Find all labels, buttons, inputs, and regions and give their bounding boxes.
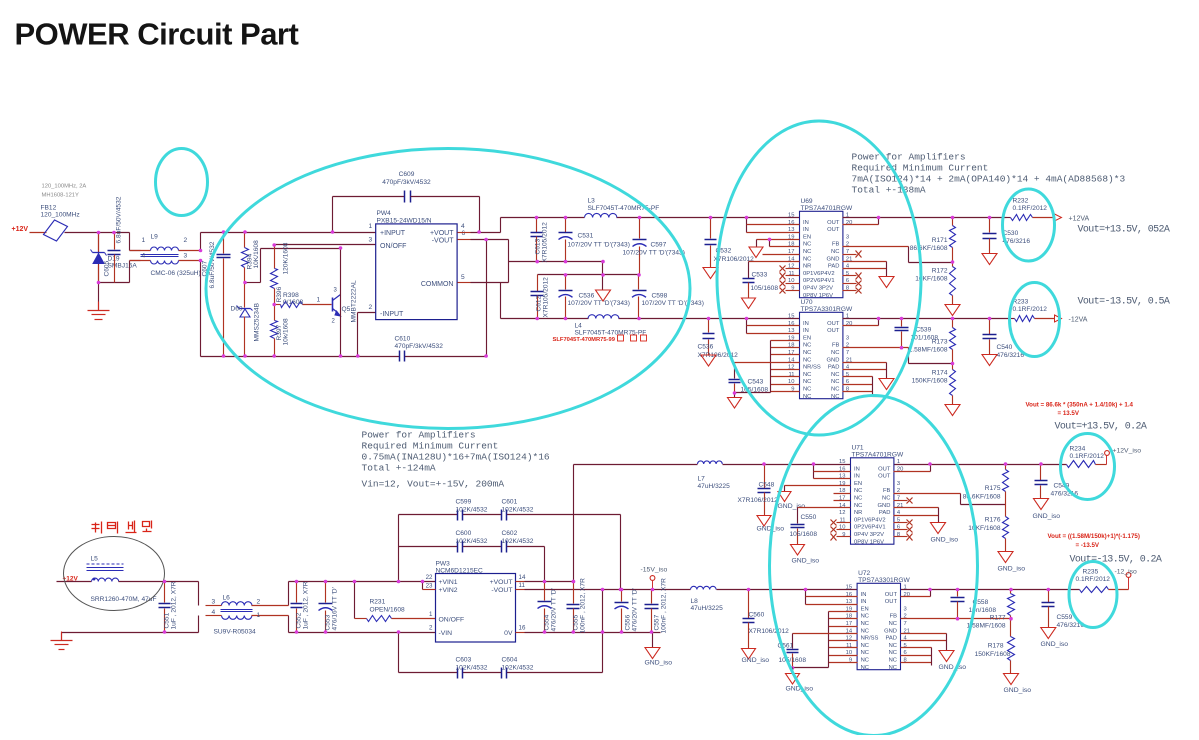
wire U71 IN stubs	[812, 462, 851, 478]
junction dot 273.7,355.5	[272, 354, 276, 358]
svg-text:Vout = ((1.58M/150k)+1)*(-1.17: Vout = ((1.58M/150k)+1)*(-1.175)	[1048, 533, 1140, 540]
wire U69 pad gnd	[843, 251, 887, 277]
svg-text:NC: NC	[831, 387, 839, 393]
ground bottom input	[51, 632, 199, 650]
junction dot 746,217	[745, 216, 749, 220]
junction dot 602,631.5	[601, 630, 605, 634]
capacitor C557	[645, 578, 668, 634]
svg-text:Vout=+13.5V, 0.2A: Vout=+13.5V, 0.2A	[1055, 422, 1147, 433]
svg-text:476/3216: 476/3216	[997, 352, 1025, 359]
highlight ellipse R235	[1069, 562, 1117, 628]
inductor L7	[698, 461, 731, 490]
svg-text:GND_iso: GND_iso	[1004, 687, 1032, 694]
svg-text:= 13.5V: = 13.5V	[1058, 410, 1080, 417]
svg-text:NC: NC	[889, 650, 897, 656]
svg-text:NC: NC	[861, 650, 869, 656]
junction dot 639,217	[638, 216, 642, 220]
svg-text:TPS7A4701RGW: TPS7A4701RGW	[801, 205, 853, 212]
svg-text:-12_iso: -12_iso	[1115, 569, 1138, 576]
svg-text:NC: NC	[803, 350, 811, 356]
svg-text:C559: C559	[1057, 614, 1073, 621]
svg-text:3: 3	[904, 606, 907, 612]
svg-text:105/1608: 105/1608	[779, 657, 807, 664]
svg-text:GND: GND	[884, 628, 897, 634]
dc-dc module PW4	[369, 210, 466, 320]
svg-text:3: 3	[846, 234, 849, 240]
wire U72 pad gnd	[901, 634, 947, 651]
wire -VOUT iso	[516, 589, 691, 591]
wire L6 jogs	[199, 582, 289, 633]
svg-text:NC: NC	[831, 249, 839, 255]
wire U70 EN NC bus	[771, 341, 800, 393]
capacitor C536 low	[698, 319, 739, 360]
wire R398 to Q5 base	[303, 297, 332, 305]
svg-text:R177: R177	[990, 615, 1006, 622]
svg-text:NC: NC	[889, 665, 897, 671]
svg-text:0.1RF/2012: 0.1RF/2012	[1013, 306, 1048, 313]
svg-text:+12VA: +12VA	[1069, 216, 1090, 223]
junction dot 98,232	[97, 231, 101, 235]
svg-text:NC: NC	[803, 372, 811, 378]
ground R176	[998, 552, 1026, 573]
svg-text:IN: IN	[861, 599, 867, 605]
capacitor C609	[333, 171, 480, 233]
svg-text:NR/SS: NR/SS	[803, 365, 821, 371]
svg-text:-INPUT: -INPUT	[380, 311, 404, 318]
wire U72 EN NC bus	[793, 612, 858, 668]
svg-text:IN: IN	[861, 592, 867, 598]
svg-text:EN: EN	[803, 335, 811, 341]
svg-text:0.75mA(INA128U)*16+7mA(ISO124): 0.75mA(INA128U)*16+7mA(ISO124)*16	[362, 452, 550, 463]
wire U72 NRSS to C561	[793, 634, 858, 649]
svg-text:OUT: OUT	[878, 466, 891, 472]
svg-text:105/1608: 105/1608	[751, 285, 779, 292]
ellipse L5 change	[64, 537, 165, 611]
svg-text:10k/1608: 10k/1608	[283, 318, 290, 345]
svg-text:+VIN2: +VIN2	[439, 587, 458, 594]
svg-text:6: 6	[462, 230, 466, 237]
svg-text:22: 22	[426, 574, 433, 581]
wire U70 NRSS to C543	[735, 363, 800, 379]
junction dot 398,631.5	[397, 630, 401, 634]
svg-text:X7R106/2012: X7R106/2012	[749, 628, 790, 635]
svg-text:Power for Amplifiers: Power for Amplifiers	[362, 430, 476, 441]
wire +INPUT rail	[201, 232, 376, 234]
wire +VOUT net	[458, 218, 501, 233]
svg-text:NR: NR	[854, 510, 862, 516]
resistor R172	[915, 263, 955, 305]
junction dot 223,231.5	[222, 230, 226, 234]
svg-text:0.1RF/2012: 0.1RF/2012	[1013, 205, 1048, 212]
svg-text:GND_iso: GND_iso	[998, 566, 1026, 573]
svg-text:C598: C598	[652, 293, 668, 300]
svg-text:107/20V TT 'D'(7343): 107/20V TT 'D'(7343)	[568, 242, 630, 249]
junction dot 113.5,232	[112, 231, 116, 235]
highlight ellipse small top-left	[156, 149, 208, 216]
junction dot 340,247.5	[339, 246, 343, 250]
svg-text:L6: L6	[223, 595, 231, 602]
svg-text:Vout=-13.5V, 0.5A: Vout=-13.5V, 0.5A	[1078, 297, 1170, 308]
wire C599 row	[399, 515, 621, 590]
svg-text:3: 3	[212, 599, 216, 606]
junction dot 638.5,318	[637, 317, 641, 321]
svg-text:PAD: PAD	[886, 636, 898, 642]
junction dot 164,631.5	[163, 630, 167, 634]
svg-text:R174: R174	[932, 370, 948, 377]
svg-text:C543: C543	[748, 379, 764, 386]
ground C549	[1033, 499, 1061, 521]
resistor R398	[275, 292, 304, 308]
svg-text:-12VA: -12VA	[1069, 317, 1088, 324]
svg-text:-15V_iso: -15V_iso	[641, 567, 668, 574]
note Vout neg	[1078, 297, 1170, 308]
svg-text:FB: FB	[890, 614, 898, 620]
capacitor C551	[159, 581, 178, 632]
svg-text:100nF , 2012, X7R: 100nF , 2012, X7R	[661, 578, 668, 634]
svg-text:R171: R171	[932, 237, 948, 244]
svg-text:10KF/1608: 10KF/1608	[968, 525, 1001, 532]
svg-text:1: 1	[369, 223, 373, 230]
svg-text:R235: R235	[1083, 569, 1099, 576]
svg-text:C550: C550	[801, 514, 817, 521]
svg-text:Required Minimum Current: Required Minimum Current	[852, 163, 989, 174]
wire C610 to -VOUT	[486, 240, 488, 357]
capacitor C539	[895, 317, 939, 348]
svg-text:C603: C603	[456, 657, 472, 664]
regulator U71	[839, 444, 904, 545]
junction dot 357.3,355.5	[356, 354, 360, 358]
wire VIN2 jog	[423, 582, 436, 590]
wire lower -13.5V rail	[501, 318, 800, 320]
wire L9 pin3 out	[200, 261, 202, 357]
svg-text:OUT: OUT	[827, 220, 840, 226]
junction dot 98,282	[97, 281, 101, 285]
note Vout formula2 red	[1048, 533, 1140, 549]
svg-text:IN: IN	[803, 220, 809, 226]
svg-text:+12V_iso: +12V_iso	[1113, 448, 1142, 455]
svg-text:476/16V TT 'D': 476/16V TT 'D'	[332, 587, 339, 630]
svg-text:OUT: OUT	[885, 592, 898, 598]
svg-text:R172: R172	[932, 268, 948, 275]
capacitor C536 mid	[559, 275, 630, 319]
resistor R173	[909, 319, 956, 364]
svg-text:105/1608: 105/1608	[790, 531, 818, 538]
svg-text:L5: L5	[91, 556, 99, 563]
svg-text:C597: C597	[651, 242, 667, 249]
capacitor C532	[705, 218, 755, 268]
junction dot 638.5,274.4	[637, 273, 641, 277]
junction dot 573,581	[572, 580, 576, 584]
wire mid bus2	[538, 262, 639, 275]
svg-text:OUT: OUT	[827, 328, 840, 334]
junction dot 652,589	[651, 588, 655, 592]
resistor R175	[963, 462, 1009, 504]
svg-text:SMBJ15A: SMBJ15A	[108, 263, 138, 270]
svg-text:107/20V TT 'D'(7343): 107/20V TT 'D'(7343)	[642, 300, 704, 307]
port +12VA	[1055, 214, 1090, 223]
svg-text:PAD: PAD	[828, 264, 840, 270]
svg-text:TPS7A3301RGW: TPS7A3301RGW	[801, 306, 853, 313]
svg-text:D60: D60	[231, 306, 243, 313]
ground U71 pad	[931, 523, 959, 544]
svg-text:GND_iso: GND_iso	[792, 558, 820, 565]
capacitor C600	[456, 530, 488, 553]
svg-text:7: 7	[846, 350, 849, 356]
junction dot 164,581	[163, 580, 167, 584]
svg-text:L8: L8	[691, 598, 699, 605]
capacitor C561	[778, 643, 807, 670]
wire R394 jog	[245, 249, 341, 283]
svg-text:NC: NC	[831, 350, 839, 356]
svg-text:17: 17	[788, 350, 794, 356]
svg-text:NC: NC	[803, 256, 811, 262]
svg-text:OPEN/1608: OPEN/1608	[370, 607, 406, 614]
svg-text:15: 15	[846, 585, 852, 591]
svg-text:POWER Circuit Part: POWER Circuit Part	[15, 17, 299, 52]
svg-text:GND_iso: GND_iso	[931, 537, 959, 544]
wire U72 nc right	[901, 648, 932, 666]
svg-text:OUT: OUT	[878, 474, 891, 480]
junction dot 620,589	[619, 588, 623, 592]
wire -INPUT jog	[358, 313, 376, 357]
resistor R174	[912, 364, 956, 405]
svg-text:MMBT2222AL: MMBT2222AL	[351, 280, 358, 322]
note FB12 part info	[42, 184, 87, 199]
port -12_iso	[1109, 569, 1138, 590]
resistor R178	[975, 617, 1015, 674]
wire U69 NC stubs	[763, 254, 800, 256]
svg-text:Vout = 86.6k * (350nA + 1.4/10: Vout = 86.6k * (350nA + 1.4/10k) + 1.4	[1026, 402, 1134, 409]
svg-text:GND: GND	[878, 503, 891, 509]
svg-text:C556: C556	[625, 614, 632, 630]
svg-text:NR: NR	[803, 264, 811, 270]
choke L6	[206, 595, 289, 636]
capacitor C556	[615, 588, 639, 632]
ground U70 pad	[879, 379, 894, 390]
svg-text:+VOUT: +VOUT	[430, 230, 454, 237]
svg-text:IN: IN	[803, 227, 809, 233]
junction dot 244.5,231.5	[243, 230, 247, 234]
capacitor C555	[567, 578, 587, 634]
svg-text:ON/OFF: ON/OFF	[380, 243, 406, 250]
svg-text:C599: C599	[456, 499, 472, 506]
junction dot 536.7,261.1	[535, 260, 539, 264]
svg-text:GND_iso: GND_iso	[645, 660, 673, 667]
svg-text:0P1V6P4V2: 0P1V6P4V2	[854, 517, 886, 523]
ground C550	[791, 545, 820, 565]
junction dot 536.7,318	[535, 317, 539, 321]
junction dot 354,581	[353, 580, 357, 584]
svg-text:15: 15	[788, 213, 794, 219]
svg-text:+INPUT: +INPUT	[380, 230, 406, 237]
capacitor C597	[623, 218, 685, 275]
svg-text:4: 4	[142, 253, 146, 260]
node +12V bottom	[63, 576, 79, 583]
svg-text:10K/1608: 10K/1608	[253, 240, 260, 269]
svg-text:NC: NC	[861, 621, 869, 627]
svg-text:NC: NC	[831, 394, 839, 400]
svg-text:470pF/3kV/4532: 470pF/3kV/4532	[395, 343, 444, 350]
svg-text:L7: L7	[698, 476, 706, 483]
svg-text:476/20V TT 'D': 476/20V TT 'D'	[551, 588, 558, 631]
svg-text:MMSZ5234B: MMSZ5234B	[254, 302, 261, 341]
capacitor C540	[983, 317, 1025, 359]
svg-text:47uH/3225: 47uH/3225	[698, 483, 731, 490]
svg-text:C553: C553	[325, 614, 332, 630]
node +12V input	[12, 226, 29, 233]
ground U69 pad	[879, 277, 894, 288]
svg-text:NC: NC	[854, 488, 862, 494]
svg-text:OUT: OUT	[885, 599, 898, 605]
svg-text:CMC-06 (325uH): CMC-06 (325uH)	[151, 270, 201, 277]
port +12V_iso	[1096, 448, 1142, 465]
svg-text:PW4: PW4	[377, 210, 392, 217]
svg-text:C557: C557	[654, 614, 661, 630]
wire U71 NC stubs	[834, 494, 851, 501]
svg-text:NC: NC	[889, 643, 897, 649]
svg-text:C533: C533	[752, 272, 768, 279]
note Vout formula red	[1026, 402, 1134, 418]
junction dot 325,581	[324, 580, 328, 584]
svg-text:1uF , 2012, X7R: 1uF , 2012, X7R	[303, 581, 310, 629]
junction dot 536,217	[535, 216, 539, 220]
resistor R177	[967, 588, 1015, 630]
svg-text:0.1RF/2012: 0.1RF/2012	[1070, 453, 1105, 460]
junction dot 273.7,304	[272, 303, 276, 307]
capacitor C554	[538, 582, 558, 633]
ground input section	[88, 283, 110, 320]
junction dot 572.8,581	[572, 580, 576, 584]
svg-text:+VIN1: +VIN1	[439, 579, 458, 586]
svg-text:C610: C610	[395, 336, 411, 343]
svg-text:SLF7045T-470MR75-99: SLF7045T-470MR75-99	[553, 337, 616, 343]
svg-text:U69: U69	[801, 198, 813, 205]
svg-text:0V: 0V	[504, 630, 513, 637]
svg-text:3: 3	[184, 253, 188, 260]
svg-text:L4: L4	[575, 323, 583, 330]
svg-text:IN: IN	[854, 466, 860, 472]
svg-text:NC: NC	[854, 496, 862, 502]
capacitor C603	[456, 657, 488, 679]
wire U70 OUT	[843, 317, 1010, 326]
wire U71 pad gnd	[894, 508, 939, 523]
svg-text:NC: NC	[803, 249, 811, 255]
junction dot 223,355.5	[222, 354, 226, 358]
svg-text:Vin=12, Vout=+-15V, 200mA: Vin=12, Vout=+-15V, 200mA	[362, 479, 505, 490]
svg-text:L3: L3	[588, 198, 596, 205]
junction dot 273.7,244.5	[272, 243, 276, 247]
svg-text:12: 12	[839, 510, 845, 516]
svg-text:Power for Amplifiers: Power for Amplifiers	[852, 152, 966, 163]
capacitor C559	[1042, 588, 1085, 629]
highlight ellipse R234	[1061, 434, 1115, 500]
svg-text:8: 8	[897, 532, 900, 538]
svg-text:NC: NC	[803, 343, 811, 349]
svg-text:U71: U71	[852, 444, 864, 451]
highlight ellipse U71 U72	[770, 396, 978, 736]
x marks U69 left	[780, 266, 800, 294]
svg-text:IN: IN	[854, 474, 860, 480]
svg-text:X7R105/2012: X7R105/2012	[542, 222, 549, 263]
svg-text:1uF , 2012, X7R: 1uF , 2012, X7R	[171, 581, 178, 629]
svg-text:3: 3	[897, 481, 900, 487]
wire Q5 collector rail	[340, 249, 342, 356]
svg-text:C531: C531	[578, 233, 594, 240]
svg-text:NC: NC	[803, 357, 811, 363]
svg-text:0P2V6P4V1: 0P2V6P4V1	[854, 525, 886, 531]
svg-text:C536: C536	[698, 344, 714, 351]
svg-text:X7R106/2012: X7R106/2012	[738, 497, 779, 504]
junction dot 621,631.5	[620, 630, 624, 634]
svg-text:NC: NC	[803, 387, 811, 393]
x marks U71 right	[894, 498, 913, 541]
wire U69 EN	[757, 238, 800, 247]
svg-text:COMMON: COMMON	[421, 281, 454, 288]
svg-text:PAD: PAD	[828, 365, 840, 371]
diode D19	[91, 233, 138, 283]
wire U69 IN stubs	[747, 218, 800, 233]
svg-text:5: 5	[461, 274, 465, 281]
ground GND_iso PW3	[645, 633, 673, 667]
svg-text:C551: C551	[164, 612, 171, 628]
junction dot 602.5,261.1	[601, 260, 605, 264]
ground R178	[1004, 674, 1032, 695]
svg-text:3: 3	[846, 335, 849, 341]
svg-text:EN: EN	[803, 234, 811, 240]
capacitor C548	[738, 462, 779, 515]
junction dot 565,274.4	[564, 273, 568, 277]
svg-text:102K/4532: 102K/4532	[502, 538, 534, 545]
svg-text:OUT: OUT	[827, 227, 840, 233]
svg-text:R178: R178	[988, 643, 1004, 650]
wire L9 input jog	[130, 233, 141, 283]
wire U72 FB	[901, 617, 1011, 621]
capacitor C543	[729, 379, 771, 394]
capacitor C553	[319, 582, 339, 633]
junction dot 565,217	[564, 216, 568, 220]
svg-text:NC: NC	[854, 503, 862, 509]
svg-text:-VOUT: -VOUT	[491, 587, 512, 594]
svg-text:1: 1	[429, 611, 433, 618]
note power bottom	[362, 430, 550, 490]
svg-text:= -13.5V: = -13.5V	[1076, 542, 1100, 549]
svg-text:NC: NC	[861, 614, 869, 620]
wire U71 OUT	[894, 462, 932, 471]
svg-text:C604: C604	[502, 657, 518, 664]
junction dot 485.6,239	[484, 238, 488, 242]
svg-text:C540: C540	[997, 344, 1013, 351]
highlight ellipse U69 U70	[717, 121, 921, 435]
svg-text:C539: C539	[916, 327, 932, 334]
svg-text:NC: NC	[803, 242, 811, 248]
capacitor C607	[202, 233, 231, 357]
inductor L4	[575, 315, 647, 337]
svg-text:4: 4	[212, 609, 216, 616]
svg-text:Q5: Q5	[342, 306, 351, 313]
svg-text:1: 1	[257, 612, 261, 619]
svg-text:NR/SS: NR/SS	[861, 636, 879, 642]
svg-text:X7R105/2012: X7R105/2012	[543, 277, 550, 318]
highlight ellipse R233	[1010, 283, 1060, 357]
note Vout iso pos	[1055, 422, 1147, 433]
resistor R396	[271, 242, 290, 304]
svg-text:102K/4532: 102K/4532	[456, 538, 488, 545]
choke L9	[130, 234, 201, 278]
svg-text:EN: EN	[854, 481, 862, 487]
svg-text:1: 1	[317, 297, 321, 304]
note Vout iso neg	[1070, 555, 1162, 566]
wire L9 pin2 out	[200, 233, 202, 251]
